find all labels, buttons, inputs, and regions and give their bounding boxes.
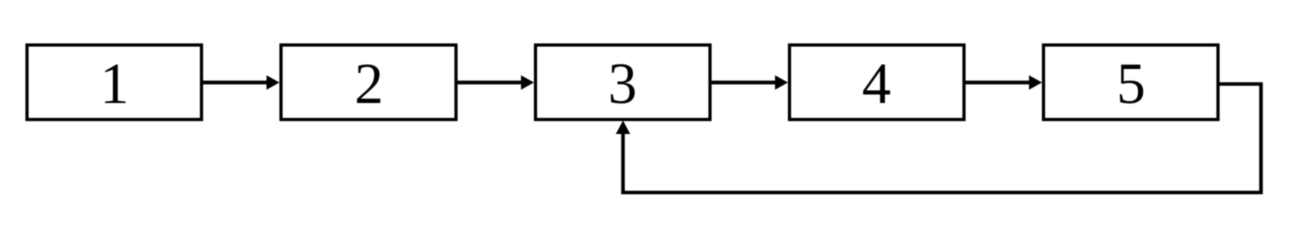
- svg-text:1: 1: [100, 51, 129, 116]
- svg-text:4: 4: [862, 51, 891, 116]
- svg-text:5: 5: [1117, 51, 1146, 116]
- svg-text:2: 2: [355, 51, 384, 116]
- svg-text:3: 3: [608, 51, 637, 116]
